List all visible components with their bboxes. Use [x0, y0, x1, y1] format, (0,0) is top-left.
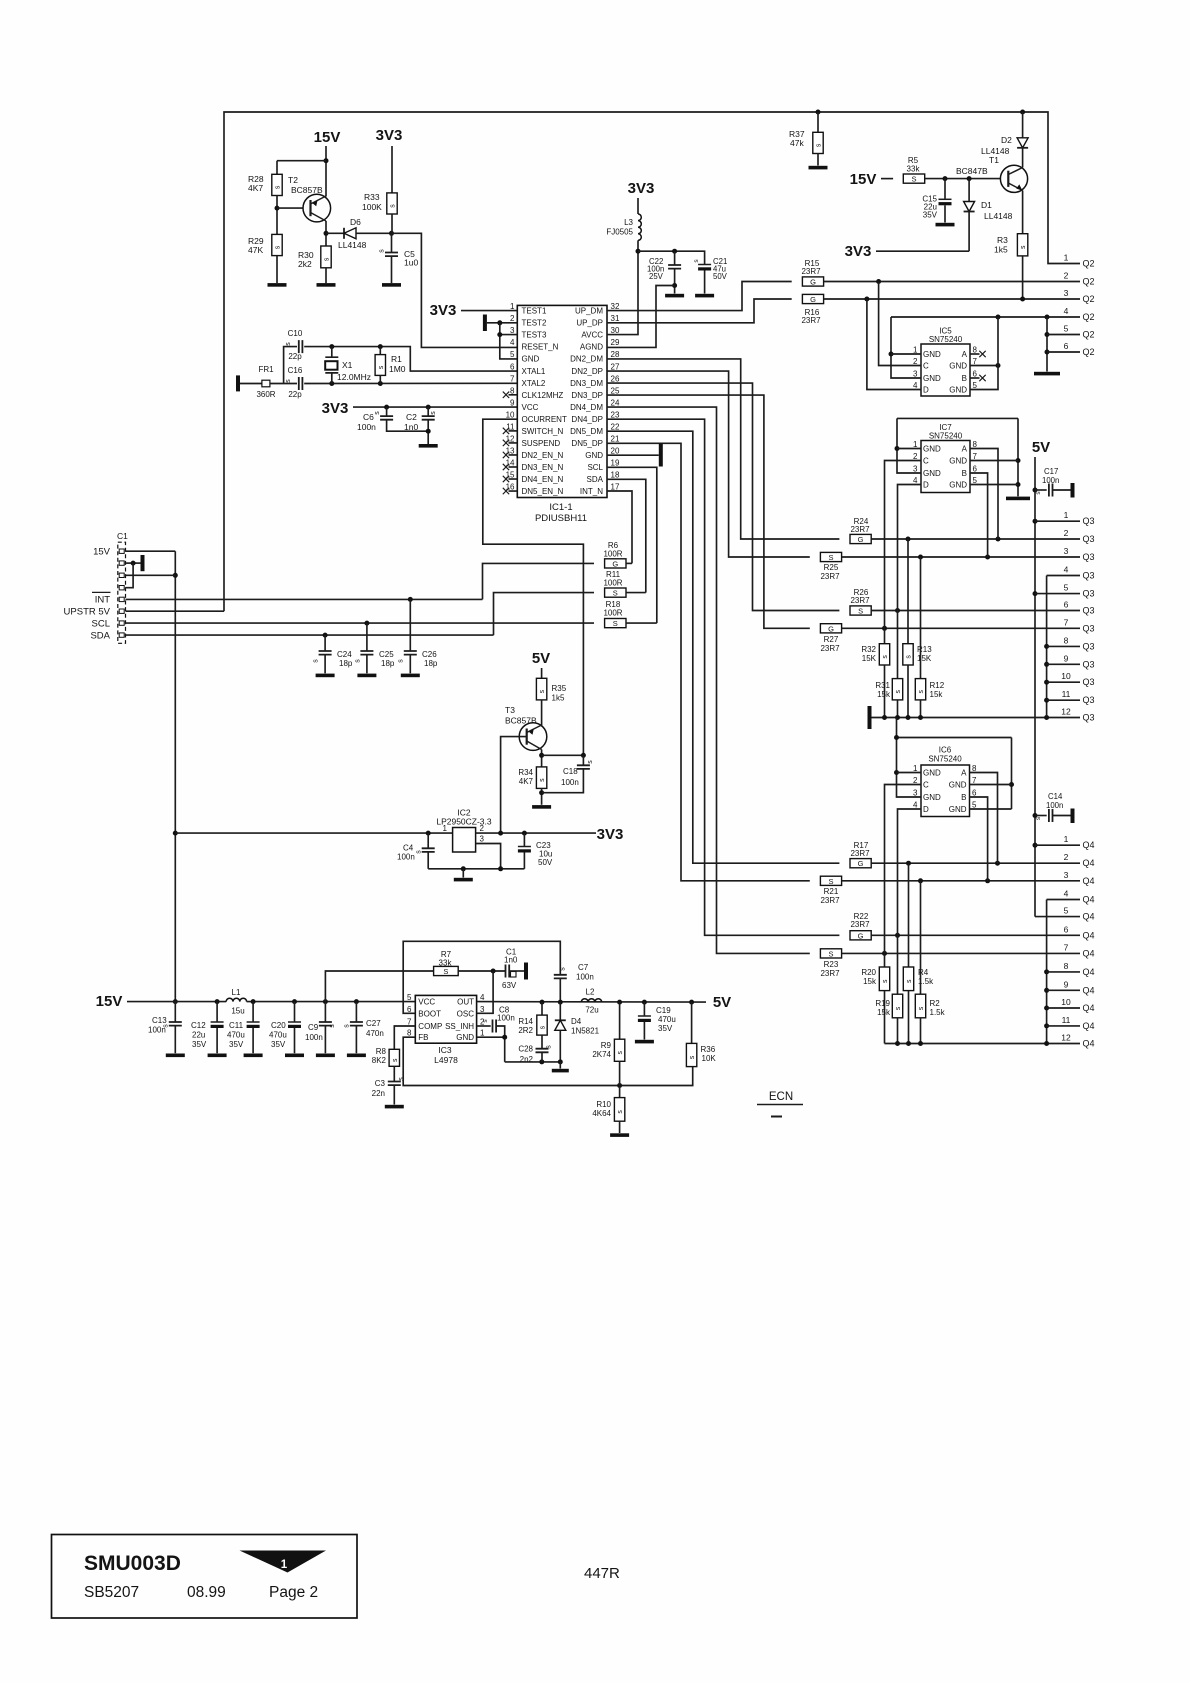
svg-text:100n: 100n: [357, 422, 376, 432]
wire: [331, 373, 333, 384]
svg-text:GND: GND: [585, 451, 603, 460]
capacitor C15 22u 35V: [939, 198, 952, 200]
wire gnd node row: [505, 1061, 561, 1063]
svg-text:100n: 100n: [305, 1033, 323, 1042]
wire RESET_N to IC1 pin4: [392, 233, 518, 347]
svg-text:C28: C28: [518, 1045, 533, 1054]
svg-text:s: s: [390, 204, 397, 208]
wire 15V to R5: [881, 178, 893, 180]
svg-text:Q3: Q3: [1083, 713, 1095, 723]
wire: [674, 269, 676, 294]
svg-text:7: 7: [1064, 617, 1069, 627]
svg-text:32: 32: [611, 302, 620, 311]
ground Q2: [1034, 372, 1060, 376]
svg-text:Q3: Q3: [1083, 516, 1095, 526]
wire Q3 pin1 5V: [1035, 520, 1080, 522]
svg-text:s: s: [163, 1024, 170, 1028]
wire: [324, 655, 326, 674]
svg-text:Q2: Q2: [1083, 347, 1095, 357]
svg-text:25V: 25V: [649, 272, 664, 281]
wire: [355, 1026, 357, 1054]
svg-text:5V: 5V: [713, 994, 731, 1011]
wire: [216, 1002, 218, 1022]
wire GND pin: [477, 1036, 505, 1038]
wire C1 pin2: [126, 562, 141, 564]
svg-text:6: 6: [972, 789, 977, 798]
ground: [285, 1054, 304, 1058]
svg-text:GND: GND: [923, 769, 941, 778]
svg-text:470n: 470n: [366, 1029, 384, 1038]
svg-text:4: 4: [913, 476, 918, 485]
svg-text:UPSTR 5V: UPSTR 5V: [64, 607, 111, 618]
svg-text:C9: C9: [308, 1023, 319, 1032]
capacitor C8 100n: [493, 1020, 497, 1033]
wire IC6 pin5: [970, 808, 1012, 810]
wire Q4 pin: [1047, 971, 1080, 973]
svg-text:S: S: [828, 877, 833, 886]
svg-text:s: s: [816, 143, 823, 147]
ground: [401, 674, 420, 678]
svg-text:2: 2: [1064, 852, 1069, 862]
ground: [385, 1105, 404, 1109]
wire: [897, 611, 899, 679]
wire R22 to Q4 pin6: [871, 934, 1080, 936]
svg-text:GND: GND: [923, 374, 941, 383]
svg-text:R20: R20: [861, 968, 876, 977]
wire R15 to Q2 pin2: [824, 281, 1080, 283]
svg-text:TEST2: TEST2: [522, 319, 547, 328]
svg-text:22n: 22n: [372, 1089, 385, 1098]
svg-text:1.5k: 1.5k: [930, 1008, 946, 1017]
svg-text:3V3: 3V3: [430, 302, 457, 319]
diode D1 LL4148: [964, 202, 975, 212]
svg-text:C16: C16: [288, 366, 303, 375]
svg-text:LL4148: LL4148: [981, 146, 1010, 156]
svg-text:s: s: [378, 365, 385, 369]
inductor L2 72u: [581, 999, 601, 1002]
wire: [559, 1030, 561, 1062]
svg-text:s: s: [285, 342, 292, 346]
svg-text:s: s: [906, 979, 913, 983]
svg-text:S: S: [443, 967, 448, 976]
svg-text:1: 1: [913, 764, 918, 773]
resistor R8: [389, 1049, 399, 1066]
ground: [208, 1054, 227, 1058]
wire: [907, 539, 909, 644]
resistor R4: [903, 967, 913, 991]
svg-text:GND: GND: [949, 386, 967, 395]
svg-text:R27: R27: [824, 635, 839, 644]
svg-text:3: 3: [913, 465, 918, 474]
wire: [674, 251, 676, 265]
svg-text:20: 20: [611, 446, 620, 455]
node INT label: [92, 591, 111, 593]
capacitor C14 100n: [1049, 809, 1053, 822]
wire to D6: [326, 232, 344, 234]
resistor R10: [614, 1098, 624, 1122]
wire 15V to T2 emitter: [325, 146, 327, 197]
svg-text:XTAL2: XTAL2: [522, 379, 546, 388]
svg-text:33k: 33k: [439, 959, 453, 968]
resistor R3: [1017, 234, 1027, 256]
svg-text:GND: GND: [456, 1033, 474, 1042]
svg-text:G: G: [612, 559, 618, 568]
diode D6 LL4148: [343, 228, 345, 239]
svg-text:10: 10: [1061, 671, 1071, 681]
svg-text:19: 19: [611, 458, 620, 467]
svg-text:SWITCH_N: SWITCH_N: [522, 427, 564, 436]
svg-text:R36: R36: [701, 1045, 716, 1054]
svg-text:35V: 35V: [923, 211, 938, 220]
svg-text:R23: R23: [824, 960, 839, 969]
svg-text:D: D: [923, 481, 929, 490]
wire R35 to T3 emitter: [541, 700, 543, 726]
svg-text:1: 1: [913, 346, 918, 355]
svg-text:FR1: FR1: [258, 365, 274, 374]
svg-text:23R7: 23R7: [820, 896, 840, 905]
svg-text:5: 5: [973, 476, 978, 485]
wire: [541, 788, 543, 804]
wire UP_DM pin32 to R15: [607, 282, 792, 311]
svg-text:R4: R4: [918, 968, 929, 977]
op-amp U IC3 L4978 box: [415, 995, 476, 1043]
svg-text:26: 26: [611, 374, 620, 383]
capacitor C20 470u 35V: [288, 1021, 301, 1023]
svg-text:C: C: [923, 781, 929, 790]
capacitor C16 22p: [299, 377, 303, 390]
svg-text:T3: T3: [505, 705, 515, 715]
wire to C15: [944, 179, 946, 199]
svg-text:R1: R1: [391, 354, 402, 364]
wire: [324, 635, 326, 651]
svg-text:100R: 100R: [603, 550, 622, 559]
svg-text:15V: 15V: [96, 993, 123, 1010]
wire SCL pin19 riser: [607, 467, 657, 623]
wire: [174, 1026, 176, 1054]
transistor T2 BC857B: [303, 194, 331, 222]
wire: [897, 700, 899, 718]
resistor R36: [686, 1043, 696, 1066]
svg-text:6: 6: [1064, 341, 1069, 351]
svg-text:12.0MHz: 12.0MHz: [337, 372, 371, 382]
svg-text:s: s: [355, 659, 362, 663]
svg-text:35V: 35V: [658, 1024, 673, 1033]
svg-text:X1: X1: [342, 360, 353, 370]
svg-text:22: 22: [611, 422, 620, 431]
wire 3V3 to IC1 pin9 VCC: [353, 406, 517, 408]
wire Q2 gnd vertical: [1046, 317, 1048, 372]
svg-text:2: 2: [913, 357, 918, 366]
wire: [324, 1026, 326, 1054]
svg-text:IC6: IC6: [939, 746, 952, 755]
svg-text:Q3: Q3: [1083, 606, 1095, 616]
wire: [1053, 815, 1071, 817]
wire: [331, 347, 333, 358]
svg-text:B: B: [961, 793, 966, 802]
ground: [244, 1054, 263, 1058]
wire: [427, 833, 429, 848]
capacitor C7 100n: [554, 975, 567, 979]
wire to D1: [968, 179, 970, 202]
svg-text:VCC: VCC: [522, 403, 539, 412]
capacitor C18 100n: [577, 765, 590, 769]
svg-text:FB: FB: [418, 1033, 428, 1042]
wire node to C18: [542, 754, 584, 756]
svg-text:s: s: [546, 1045, 553, 1049]
svg-text:S: S: [828, 949, 833, 958]
terminal XTAL2 stub: [236, 375, 240, 391]
svg-text:Q2: Q2: [1083, 330, 1095, 340]
svg-text:Q3: Q3: [1083, 677, 1095, 687]
svg-text:2: 2: [1064, 528, 1069, 538]
wire IC1 pin12 stub: [509, 442, 518, 444]
wire C6 gnd link: [387, 420, 429, 432]
op-amp U IC2 LP2950CZ-3.3 box: [453, 828, 476, 853]
svg-text:50V: 50V: [713, 272, 728, 281]
svg-text:100n: 100n: [576, 973, 594, 982]
svg-text:SS_INH: SS_INH: [445, 1022, 474, 1031]
terminal IC1 test ground: [483, 315, 487, 332]
svg-text:C11: C11: [229, 1021, 244, 1030]
svg-text:Q3: Q3: [1083, 659, 1095, 669]
svg-text:25: 25: [611, 386, 620, 395]
svg-text:R10: R10: [596, 1100, 611, 1109]
svg-text:GND: GND: [923, 445, 941, 454]
svg-text:1k5: 1k5: [994, 245, 1008, 255]
wire INT row: [126, 598, 483, 600]
wire: [1035, 815, 1047, 817]
wire R16 to IC5 pin4 D: [867, 299, 921, 390]
svg-text:7: 7: [973, 357, 978, 366]
svg-text:23R7: 23R7: [820, 644, 840, 653]
wire IC6 pin1: [897, 772, 922, 774]
svg-text:10: 10: [1061, 997, 1071, 1007]
svg-text:8: 8: [1064, 635, 1069, 645]
resistor R16 23R7: [802, 294, 823, 303]
wire DN5_DM pin22 to R17: [607, 431, 839, 863]
wire: [907, 665, 909, 718]
svg-text:G: G: [828, 624, 834, 633]
svg-text:2K74: 2K74: [592, 1050, 611, 1059]
wire IC1 pin15 stub: [509, 478, 518, 480]
diode D4 1N5821: [555, 1019, 566, 1021]
ground: [809, 166, 828, 170]
svg-text:s: s: [285, 379, 292, 383]
ground: [316, 674, 335, 678]
wire: [270, 383, 297, 385]
wire IC1 pins3-5 tie: [500, 323, 518, 359]
op-amp U IC6 SN75240 box: [921, 765, 970, 817]
svg-text:R32: R32: [861, 645, 876, 654]
svg-text:XTAL1: XTAL1: [522, 367, 546, 376]
svg-text:VCC: VCC: [418, 998, 435, 1007]
svg-text:COMP: COMP: [418, 1022, 442, 1031]
svg-text:IC1-1: IC1-1: [549, 502, 572, 513]
wire Q4 gnd vertical: [1046, 900, 1048, 1044]
svg-text:1: 1: [1064, 253, 1069, 263]
terminal C1 gnd: [141, 555, 145, 571]
svg-text:Q3: Q3: [1083, 571, 1095, 581]
svg-text:G: G: [858, 859, 864, 868]
ground: [357, 674, 376, 678]
svg-text:DN2_DP: DN2_DP: [571, 367, 603, 376]
svg-text:R13: R13: [917, 645, 932, 654]
svg-text:s: s: [374, 411, 381, 415]
wire IC7 right gnd riser: [1017, 418, 1019, 496]
wire INT_N pin17 riser: [607, 491, 632, 563]
ground: [635, 1040, 654, 1044]
wire: [626, 562, 632, 564]
svg-text:C24: C24: [337, 650, 352, 659]
svg-text:T2: T2: [288, 175, 298, 185]
svg-text:FJ0505: FJ0505: [606, 228, 633, 237]
svg-text:GND: GND: [949, 481, 967, 490]
svg-text:1: 1: [1064, 510, 1069, 520]
terminal IC1 GND: [659, 444, 663, 467]
svg-text:PDIUSBH11: PDIUSBH11: [535, 513, 587, 524]
svg-text:s: s: [430, 411, 437, 415]
svg-text:ECN: ECN: [769, 1091, 793, 1103]
wire IC7 pin1: [897, 448, 921, 450]
wire: [174, 1002, 176, 1022]
svg-text:15K: 15K: [917, 654, 932, 663]
svg-text:47k: 47k: [790, 138, 804, 148]
svg-text:Q4: Q4: [1083, 912, 1095, 922]
svg-text:22p: 22p: [288, 352, 302, 361]
svg-text:D4: D4: [571, 1017, 582, 1026]
svg-text:GND: GND: [923, 469, 941, 478]
svg-text:BC847B: BC847B: [956, 166, 988, 176]
svg-text:S: S: [911, 175, 916, 184]
wire FB loop row: [403, 1037, 693, 1085]
wire R25 to Q3 pin3: [842, 556, 1080, 558]
svg-text:5: 5: [510, 350, 515, 359]
wire COMP to R8: [394, 1026, 415, 1049]
wire IC7 pin6 B to R25 row: [970, 473, 988, 557]
svg-text:3: 3: [480, 1005, 485, 1014]
wire R15 to IC5 pin2 C: [879, 282, 921, 366]
svg-text:3V3: 3V3: [628, 180, 655, 197]
wire Q3 pin5 5V: [1035, 593, 1080, 595]
wire: [541, 1002, 543, 1015]
wire DN4_DM pin24 to R23: [607, 407, 810, 953]
svg-text:2: 2: [480, 824, 485, 833]
wire: [817, 154, 819, 166]
wire Q4 pin: [1047, 1025, 1080, 1027]
wire IC5 pin7: [970, 365, 998, 367]
wire T2 collector to R30: [325, 221, 327, 246]
wire SDA row: [126, 634, 494, 636]
svg-text:15V: 15V: [850, 171, 877, 188]
svg-text:s: s: [313, 659, 320, 663]
wire: [1035, 489, 1047, 491]
capacitor C2 1n0: [422, 416, 435, 420]
svg-text:A: A: [961, 769, 967, 778]
wire Q4 pin4: [1047, 899, 1080, 901]
svg-text:R34: R34: [518, 768, 533, 777]
svg-text:100R: 100R: [603, 579, 622, 588]
svg-text:GND: GND: [949, 457, 967, 466]
wire IC5 pins5,7 gnd riser: [970, 317, 998, 390]
resistor R15 23R7: [802, 277, 823, 286]
svg-text:DN2_DM: DN2_DM: [570, 355, 603, 364]
resistor R17 23R7: [850, 859, 871, 868]
svg-text:35V: 35V: [229, 1040, 244, 1049]
svg-text:s: s: [617, 1051, 624, 1055]
svg-text:B: B: [962, 469, 967, 478]
ground: [610, 1133, 629, 1137]
svg-text:29: 29: [611, 338, 620, 347]
svg-text:Q4: Q4: [1083, 1021, 1095, 1031]
svg-text:8K2: 8K2: [372, 1056, 387, 1065]
svg-text:S: S: [858, 607, 863, 616]
wire: [252, 1028, 254, 1053]
svg-text:100R: 100R: [603, 609, 622, 618]
wire IC2 gnd row: [428, 868, 524, 870]
wire: [817, 112, 819, 132]
svg-text:100n: 100n: [561, 778, 579, 787]
svg-text:10: 10: [506, 410, 515, 419]
wire: [324, 1002, 326, 1022]
svg-text:23R7: 23R7: [850, 849, 870, 858]
svg-text:R8: R8: [376, 1047, 387, 1056]
svg-text:23: 23: [611, 410, 620, 419]
svg-text:4: 4: [1064, 889, 1069, 899]
resistor R37: [813, 132, 823, 153]
svg-text:G: G: [810, 278, 816, 287]
svg-text:470u: 470u: [227, 1031, 245, 1040]
wire R21 to Q4 pin3: [842, 880, 1080, 882]
svg-text:SMU003D: SMU003D: [84, 1552, 181, 1575]
wire IC1 pin3: [500, 334, 518, 336]
svg-text:AVCC: AVCC: [581, 331, 603, 340]
resistor R33: [387, 193, 397, 214]
wire: [908, 863, 910, 967]
resistor R20: [879, 967, 889, 991]
wire: [462, 869, 464, 878]
svg-text:7: 7: [972, 776, 977, 785]
svg-text:s: s: [918, 1006, 925, 1010]
wire Q3 pin: [1047, 699, 1080, 701]
capacitor C5 1u0: [385, 253, 398, 257]
svg-text:5: 5: [407, 993, 412, 1002]
capacitor C12 22u 35V: [211, 1021, 224, 1023]
wire: [355, 1002, 357, 1022]
svg-text:GND: GND: [923, 793, 941, 802]
svg-text:s: s: [398, 659, 405, 663]
svg-text:R33: R33: [364, 192, 380, 202]
svg-text:5: 5: [1064, 583, 1069, 593]
wire: [427, 407, 429, 416]
svg-text:C13: C13: [152, 1016, 167, 1025]
wire 3V3 row: [876, 250, 969, 252]
svg-text:C: C: [923, 457, 929, 466]
svg-text:Q2: Q2: [1083, 277, 1095, 287]
wire: [884, 665, 886, 718]
svg-text:DN3_EN_N: DN3_EN_N: [522, 463, 564, 472]
svg-text:s: s: [560, 967, 567, 971]
wire UPSTR 5V row: [126, 610, 225, 612]
svg-text:5: 5: [973, 381, 978, 390]
svg-text:C12: C12: [191, 1021, 206, 1030]
wire IC6 pin6 B to R21 row: [970, 797, 988, 881]
svg-text:SN75240: SN75240: [929, 432, 963, 441]
wire AGND pin29 to C22 ground: [607, 286, 675, 348]
svg-text:1: 1: [913, 440, 918, 449]
wire Q3 pin: [1047, 681, 1080, 683]
wire IC1 pin13 stub: [509, 454, 518, 456]
wire DN4_DP pin23 to R22: [607, 419, 839, 935]
